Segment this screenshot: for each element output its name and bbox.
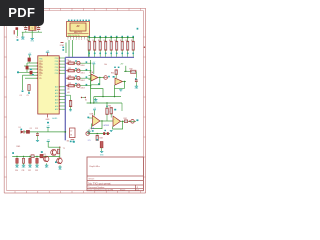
svg-text:LED3: LED3 [81, 87, 85, 89]
bus horizontal segment [65, 56, 134, 58]
transistor Q3 [44, 156, 50, 169]
bus end labels [67, 140, 75, 142]
module U2 inner divider [68, 33, 89, 35]
svg-text:C13: C13 [35, 128, 38, 130]
svg-text:5: 5 [79, 39, 80, 41]
supply label mid rail [47, 126, 51, 132]
diode D0 [28, 58, 31, 63]
svg-text:AD1: AD1 [55, 89, 58, 92]
op-amp U4B [113, 116, 121, 127]
resistor R25 on bus [65, 95, 72, 111]
bus vertical segment [64, 57, 66, 140]
capacitor C2 [37, 26, 41, 32]
wire R31 to U3B [115, 75, 117, 79]
svg-text:1/1: 1/1 [136, 189, 139, 191]
svg-text:6: 6 [81, 39, 82, 41]
LED channel row D1 [66, 60, 92, 66]
svg-text:PD2: PD2 [55, 64, 59, 66]
svg-text:PD4: PD4 [55, 70, 59, 72]
svg-text:DIN CS CLK V+: DIN CS CLK V+ [68, 35, 80, 37]
svg-text:K1: K1 [85, 100, 87, 102]
wire bottom long rail [12, 155, 60, 157]
resistor R42 [124, 118, 128, 123]
lamp LA1 [104, 76, 110, 80]
svg-text:4: 4 [76, 39, 77, 41]
supply op-amp U3A [92, 62, 96, 74]
teal mark U3B in [113, 76, 115, 78]
svg-text:+: + [92, 76, 93, 78]
svg-text:Sheet:: Sheet: [120, 188, 126, 191]
net label ICSP [60, 43, 65, 47]
IC U1 bottom pin label [46, 119, 51, 123]
net flag bottom left [12, 152, 14, 154]
wire rail to gnd left [22, 32, 24, 35]
svg-text:Date: 3/21/2021 10:32:50 PM: Date: 3/21/2021 10:32:50 PM [88, 188, 113, 191]
svg-text:AD2: AD2 [55, 92, 58, 95]
diode D12 on rail [40, 154, 43, 157]
drawing frame border with section ticks [4, 8, 145, 193]
ground C10 [135, 84, 139, 90]
wire module pin2 to bus [72, 40, 74, 57]
op-amp U4A [93, 116, 101, 127]
capacitor C13 [35, 128, 39, 142]
wire rail drop left [93, 97, 95, 103]
svg-text:R31: R31 [111, 73, 114, 75]
LED channel row D3 [66, 75, 92, 81]
wire under U3A [91, 85, 103, 97]
svg-text:AD4: AD4 [55, 98, 58, 101]
svg-text:LED0: LED0 [81, 65, 85, 67]
svg-text:TITLE:: TITLE: [88, 179, 94, 181]
svg-text:3: 3 [73, 39, 74, 41]
capacitor C22 [28, 156, 33, 173]
wire op1 lower rail [87, 102, 122, 103]
ground for crystal [30, 37, 34, 43]
IC U1 power pin top [46, 50, 50, 55]
svg-text:+: + [114, 119, 115, 121]
wire U3B output [123, 81, 127, 82]
svg-text:A0: A0 [68, 87, 70, 90]
wire supply filter [124, 71, 131, 72]
resistor R8 [126, 36, 129, 57]
crystal Q1 [29, 24, 36, 30]
ground op1 rail [94, 98, 98, 104]
resistor R6 [115, 36, 118, 57]
wire op1 bottom rail [94, 96, 121, 97]
wires IC left pins [19, 62, 43, 80]
wire rail1 vertical b [114, 88, 116, 96]
svg-text:R41: R41 [108, 105, 111, 107]
svg-text:AD7: AD7 [55, 108, 58, 111]
teal dots above R31 [104, 64, 119, 68]
test point TP1 [14, 27, 19, 41]
svg-text:PD3: PD3 [55, 67, 59, 69]
cap marks on rail [103, 130, 109, 135]
resistor R3 [98, 36, 101, 57]
wire R32 to C10 [135, 72, 137, 78]
resistor R1 [87, 36, 90, 57]
wire module pin1 to bus [68, 40, 70, 57]
svg-text:C1: C1 [23, 26, 25, 28]
svg-text:AD0: AD0 [55, 86, 58, 89]
marks above op1 rail [81, 97, 86, 98]
op-amp U3A [91, 74, 98, 82]
svg-text:+: + [93, 118, 94, 120]
IC U1 left top labels [39, 61, 42, 75]
resistor R41 [108, 105, 116, 114]
svg-text:S: S [91, 128, 92, 130]
resistor R44 [57, 148, 64, 154]
resistor R5 [109, 36, 112, 57]
wire U4A output [100, 120, 113, 121]
svg-text:C5: C5 [27, 95, 29, 97]
module U2 inner label box [70, 23, 86, 31]
svg-text:1N41: 1N41 [16, 146, 20, 148]
connector J2 [70, 128, 75, 142]
transistor Q2 [51, 149, 57, 155]
teal mark U3A fb [98, 83, 100, 84]
diode D10 [19, 127, 24, 133]
diode D15 [100, 142, 104, 157]
ground U4B fb [110, 131, 113, 132]
svg-text:2: 2 [70, 39, 71, 41]
frame section letter mark right [144, 47, 145, 48]
wire ladder drop [22, 75, 24, 90]
module U2 body [67, 22, 90, 37]
svg-text:T1: T1 [63, 148, 65, 150]
svg-text:7: 7 [84, 39, 85, 41]
svg-text:R43: R43 [100, 138, 103, 140]
diode D2 on ladder [30, 71, 34, 76]
resistor R40 [106, 106, 113, 115]
ground U4A fb [87, 129, 91, 135]
wire module to resistor rail [88, 40, 90, 57]
wire U3A output [98, 77, 104, 78]
svg-text:R42: R42 [124, 118, 127, 120]
svg-text:C31: C31 [22, 170, 25, 172]
net flag near right border [137, 28, 139, 30]
svg-text:C33: C33 [35, 170, 38, 172]
wire U4A input [87, 117, 92, 119]
inductor L1 [26, 130, 29, 133]
module U2 bottom pins [68, 37, 88, 42]
svg-text:LM358: LM358 [103, 125, 110, 127]
svg-text:C4: C4 [20, 95, 22, 97]
svg-text:PD1: PD1 [55, 61, 59, 63]
wire resistor array top rail [89, 37, 134, 39]
op-amp U3B [115, 78, 123, 86]
junction rail [45, 156, 47, 158]
capacitor C20 [15, 156, 20, 173]
IC U1 bottom pin [47, 115, 49, 118]
svg-text:PD5: PD5 [55, 73, 59, 75]
svg-text:1: 1 [68, 39, 69, 41]
svg-text:AGND: AGND [52, 117, 58, 120]
capacitor C1 [23, 26, 27, 32]
svg-text:IC5: IC5 [88, 140, 91, 142]
LED channel row D2 [66, 68, 92, 74]
svg-text:PD0: PD0 [55, 58, 59, 60]
wire R41 to U4B [110, 114, 112, 118]
svg-text:BZ: BZ [67, 140, 69, 142]
svg-text:R32: R32 [129, 68, 132, 70]
schematic page background [0, 0, 149, 198]
transistor Q4 [55, 158, 63, 171]
svg-text:F1: F1 [30, 128, 32, 130]
net flag Q3 [41, 151, 46, 156]
bead L2 on rail [31, 155, 34, 158]
supply op-amp U4A [93, 108, 97, 116]
svg-text:ChipKit Mhz: ChipKit Mhz [89, 165, 100, 168]
svg-text:Q3: Q3 [44, 154, 46, 156]
svg-text:J2: J2 [70, 131, 72, 133]
svg-text:AD3: AD3 [55, 95, 58, 98]
resistor R7 [120, 36, 123, 57]
net flag RX [17, 71, 19, 73]
feedback wire U4A [92, 121, 102, 129]
net label MOSI [62, 47, 64, 51]
net label below ladder [20, 90, 24, 97]
wire power rail [24, 131, 66, 133]
capacitor C23 [35, 156, 40, 173]
svg-text:AD5: AD5 [55, 102, 58, 105]
supply above left ladder [28, 53, 32, 58]
feedback wire U3B [115, 82, 125, 89]
wire U4B output [121, 121, 137, 122]
supply +9V U3B [120, 64, 126, 72]
wire Q collector rail [48, 147, 60, 158]
module pin wire down [65, 43, 67, 54]
resistor R31 [111, 70, 117, 75]
resistor R43 [96, 135, 98, 140]
IC U1 body [38, 56, 59, 114]
svg-text:+: + [116, 80, 117, 82]
supply Q area [47, 140, 51, 148]
svg-text:A1: A1 [68, 91, 70, 94]
wire LED collector line [90, 60, 92, 103]
svg-text:C32: C32 [28, 170, 31, 172]
PDF badge overlay [0, 0, 44, 26]
resistor R2 [93, 36, 96, 57]
wire left ladder vertical [26, 63, 28, 72]
svg-text:AD6: AD6 [55, 105, 58, 108]
svg-text:10k: 10k [104, 64, 107, 66]
net label op2 left [91, 128, 94, 131]
wire crystal to gnd [31, 31, 33, 37]
resistor R12 [27, 85, 31, 98]
svg-text:No TIG gut gerat: No TIG gut gerat [88, 182, 110, 186]
svg-text:LED2: LED2 [81, 80, 85, 82]
diode D1 on ladder [26, 66, 32, 70]
ground mark U3B fb [119, 90, 122, 91]
module U2 top pin numbers [68, 20, 90, 21]
svg-text:LED1: LED1 [81, 72, 85, 74]
svg-text:C30: C30 [15, 170, 18, 172]
resistor R4 [104, 36, 107, 57]
wire R40 stub [106, 103, 108, 121]
capacitor C21 [22, 156, 27, 173]
ground for C1 C2 [21, 35, 25, 41]
resistor R32 [129, 68, 136, 73]
svg-text:C2: C2 [37, 26, 39, 28]
wire crystal rail [22, 31, 42, 33]
feedback wire U4B [113, 121, 123, 129]
lamp LA3 [86, 132, 89, 135]
wire rail end drop [121, 103, 123, 111]
IC U1 right pins [55, 57, 65, 111]
lamp LA2 [129, 119, 139, 123]
wire U3A inputs [89, 75, 92, 79]
capacitor C10 [135, 80, 138, 84]
feedback wire U3A [91, 78, 100, 85]
op2 bottom rail [87, 133, 110, 134]
resistor R9 [131, 36, 134, 57]
LED channel row D4 [66, 83, 92, 89]
net flag C10 [135, 78, 137, 80]
title block outline [87, 157, 143, 191]
